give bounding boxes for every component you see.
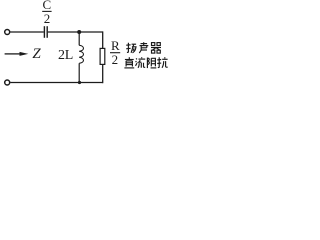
wire right branch down to resistor	[102, 31, 104, 48]
svg-text:R: R	[111, 38, 120, 53]
junction node bottom	[78, 81, 81, 84]
capacitor C/2 plate left	[43, 26, 45, 38]
hanzi 阻 (DC label char 3)	[147, 58, 156, 68]
terminal bottom-left	[5, 80, 10, 85]
hanzi 直 (DC label char 1)	[124, 57, 134, 68]
hanzi 器 (speaker label char 3)	[151, 43, 161, 53]
svg-text:Z: Z	[32, 46, 41, 62]
hanzi 扬 (speaker label char 1)	[126, 43, 136, 53]
capacitor C/2 plate right	[46, 26, 48, 38]
svg-text:2: 2	[112, 52, 119, 67]
arrow for Z	[20, 52, 29, 56]
inductor 2L stem bottom	[78, 63, 80, 82]
svg-text:2: 2	[44, 11, 51, 26]
wire resistor bottom to bottom rail	[102, 65, 104, 84]
hanzi 声 (speaker label char 2)	[139, 42, 148, 53]
inductor 2L stem top	[78, 32, 80, 45]
svg-text:2L: 2L	[58, 48, 73, 63]
hanzi 流 (DC label char 2)	[136, 57, 146, 68]
junction node top	[77, 30, 81, 34]
terminal top-left	[5, 30, 10, 35]
inductor 2L coil	[79, 45, 83, 63]
resistor R/2 body	[100, 48, 105, 64]
wire bottom rail	[10, 82, 102, 84]
wire top-left segment	[10, 31, 44, 33]
fraction bar C/2	[42, 10, 51, 12]
fraction bar R/2	[110, 52, 120, 54]
hanzi 抗 (DC label char 4)	[157, 57, 168, 68]
wire top-right segment	[48, 31, 103, 33]
